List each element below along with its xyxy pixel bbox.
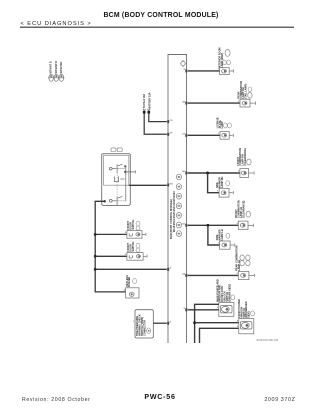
svg-text:70: 70	[170, 120, 173, 122]
svg-text:LAMP LH: LAMP LH	[238, 260, 241, 271]
svg-text:SWITCH: SWITCH	[132, 220, 135, 230]
wire switch A upper pin branch	[195, 304, 219, 343]
R1 connector ovals small	[223, 60, 227, 65]
BCM left pin 3	[167, 322, 169, 325]
junction dot at door switch 1 tap	[94, 233, 97, 236]
junction dot at BCM pin 2 tap	[94, 268, 97, 271]
wire branch to side marker R5	[208, 173, 220, 193]
svg-text:BUZZER: BUZZER	[128, 276, 131, 286]
wire BCM pin 56 to front combination lamp R4	[188, 172, 240, 174]
BCM right pin 55	[185, 224, 187, 227]
svg-text:PWC-56: PWC-56	[144, 393, 175, 401]
wire branch to side marker R7	[208, 225, 220, 245]
svg-text:LAMP: LAMP	[221, 121, 224, 128]
R1 connector oval top	[225, 50, 230, 57]
SW1 contact row 2	[114, 176, 124, 182]
lamp R5	[219, 188, 233, 197]
wire tap to switch B upper pin	[195, 322, 239, 324]
SW1 right stub terminal	[124, 170, 135, 173]
BCM right pin 27	[185, 134, 187, 137]
lamp R2	[240, 99, 256, 107]
SW1 inner junction dot	[103, 200, 105, 202]
power window main switch SW1 outer box	[102, 154, 131, 206]
tire pressure switch connector oval	[147, 328, 151, 333]
option connector symbol 2	[53, 74, 59, 81]
feed terminal 1	[143, 111, 146, 114]
header rule	[20, 26, 294, 28]
junction dot at door switch 2 tap	[94, 255, 97, 258]
feed fork mark 1	[143, 109, 146, 111]
svg-text:LAMP (MAP): LAMP (MAP)	[221, 53, 224, 68]
feed terminal 2	[148, 111, 151, 114]
door switch L2	[127, 253, 147, 261]
BCM right pin 8	[185, 69, 187, 72]
R6 connector oval	[246, 211, 250, 217]
wire to switch B lower pin	[200, 328, 239, 343]
wire BCM pin 54 to rear combination lamp R8	[188, 274, 239, 276]
svg-text:54: 54	[182, 273, 185, 276]
lamp R4	[240, 169, 254, 178]
option connector symbol 3	[58, 74, 64, 81]
svg-text:(DRIVER SIDE): (DRIVER SIDE)	[228, 284, 231, 302]
svg-text:BATTERY 15A: BATTERY 15A	[148, 92, 151, 108]
svg-text:BCM (BODY CONTROL MODULE): BCM (BODY CONTROL MODULE)	[103, 12, 218, 19]
wire feed1 to BCM pin 57	[144, 114, 167, 135]
SW1 row1 right rail	[125, 166, 127, 201]
BCM right pin 5	[185, 308, 187, 311]
power window main switch SW1 inner box	[104, 155, 129, 185]
svg-text:8: 8	[184, 69, 186, 71]
wire tap to door switch 1	[95, 233, 127, 235]
BCM right pin 54	[185, 274, 187, 277]
svg-text:(CLEARANCE): (CLEARANCE)	[244, 148, 247, 166]
junction dot front lamp LH branch	[206, 224, 209, 227]
svg-text:SIDE): SIDE)	[248, 311, 251, 318]
svg-text:M118 M119 M120 M121 M122 M123: M118 M119 M120 M121 M122 M123	[173, 191, 176, 232]
svg-text:(CLEARANCE): (CLEARANCE)	[242, 200, 245, 218]
key cylinder switch L3	[126, 288, 139, 298]
svg-text:55: 55	[182, 224, 185, 226]
junction dot front lamp branch	[206, 172, 209, 175]
svg-text:WITH MT D: WITH MT D	[55, 61, 58, 74]
svg-text:SWITCH: SWITCH	[132, 242, 135, 252]
svg-text:27: 27	[182, 134, 185, 136]
wire BCM pin 55 to front combination lamp R6	[188, 224, 239, 226]
wire BCM pin 27 to license plate lamp R3	[188, 134, 220, 136]
option connector symbol 1	[48, 74, 54, 81]
lamp R6	[238, 221, 253, 229]
BCM left pin 2	[167, 268, 169, 271]
BCM left pin 70	[167, 120, 169, 123]
svg-text:WITH AT D: WITH AT D	[50, 61, 53, 73]
wire BCM pin 5 to power window switch A	[188, 309, 219, 311]
wire tap to BCM pin 2	[95, 268, 167, 270]
svg-text:2: 2	[170, 268, 172, 270]
lamp R1	[220, 68, 234, 75]
svg-text:2009 370Z: 2009 370Z	[264, 397, 295, 403]
wire BCM pin 28 to rear combination lamp R2	[188, 102, 240, 104]
wire SW1 left drop	[95, 201, 125, 292]
svg-text:TO PG-6 10A: TO PG-6 10A	[143, 94, 146, 109]
power window switch A	[219, 303, 234, 317]
BCM internal fuse circle	[181, 60, 185, 67]
lamp R8	[238, 271, 254, 279]
lamp R3	[220, 132, 233, 140]
tire pressure warning check switch box	[135, 310, 153, 338]
R3 connector ovals	[224, 123, 228, 128]
svg-text:69: 69	[170, 183, 173, 185]
svg-text:57: 57	[170, 133, 173, 135]
main switch connector tags above box	[111, 148, 116, 152]
svg-text:5: 5	[184, 308, 186, 310]
SW1 dashed link	[116, 175, 118, 196]
svg-text:3: 3	[170, 322, 172, 324]
junction dot switch B tap	[193, 321, 196, 324]
SW1 contact row 3	[109, 196, 124, 205]
svg-text:CONNECTOR: CONNECTOR	[143, 320, 146, 336]
svg-text:28: 28	[182, 101, 185, 103]
BCM module box	[168, 55, 187, 344]
BCM left pin 69	[167, 183, 169, 186]
svg-text:Revision: 2008 October: Revision: 2008 October	[22, 397, 91, 403]
wire BCM pin 8 to room lamp R1	[188, 70, 220, 72]
power window switch B	[239, 319, 254, 334]
SW1 contact row 1	[109, 164, 126, 173]
BCM left pin 57	[167, 133, 169, 136]
svg-text:WITH VDC: WITH VDC	[60, 61, 63, 73]
wire feed2 to BCM pin 70	[149, 114, 167, 122]
wire tap to door switch 2	[95, 255, 127, 257]
svg-text:(TAIL LAMP): (TAIL LAMP)	[245, 84, 248, 99]
R2 connector oval	[248, 92, 252, 98]
svg-text:56: 56	[182, 171, 185, 173]
BCM connector ovals	[176, 174, 181, 236]
lamp R7	[220, 241, 235, 249]
door switch L1	[127, 231, 146, 239]
BCM right pin 56	[185, 172, 187, 175]
BCM right pin 28	[185, 102, 187, 105]
R8 connector ovals quad	[240, 255, 250, 266]
R4 connector oval	[247, 159, 251, 165]
svg-text:LAMP LH: LAMP LH	[221, 229, 224, 240]
svg-text:LAMP RH: LAMP RH	[221, 176, 224, 188]
svg-text:< ECU DIAGNOSIS >: < ECU DIAGNOSIS >	[21, 21, 92, 27]
feed fork mark 2	[148, 109, 151, 111]
wire tire switch to BCM pin 3	[153, 322, 167, 324]
wire SW1 to BCM pin 69	[129, 184, 167, 186]
svg-text:JRMWD0082GB: JRMWD0082GB	[256, 338, 278, 342]
